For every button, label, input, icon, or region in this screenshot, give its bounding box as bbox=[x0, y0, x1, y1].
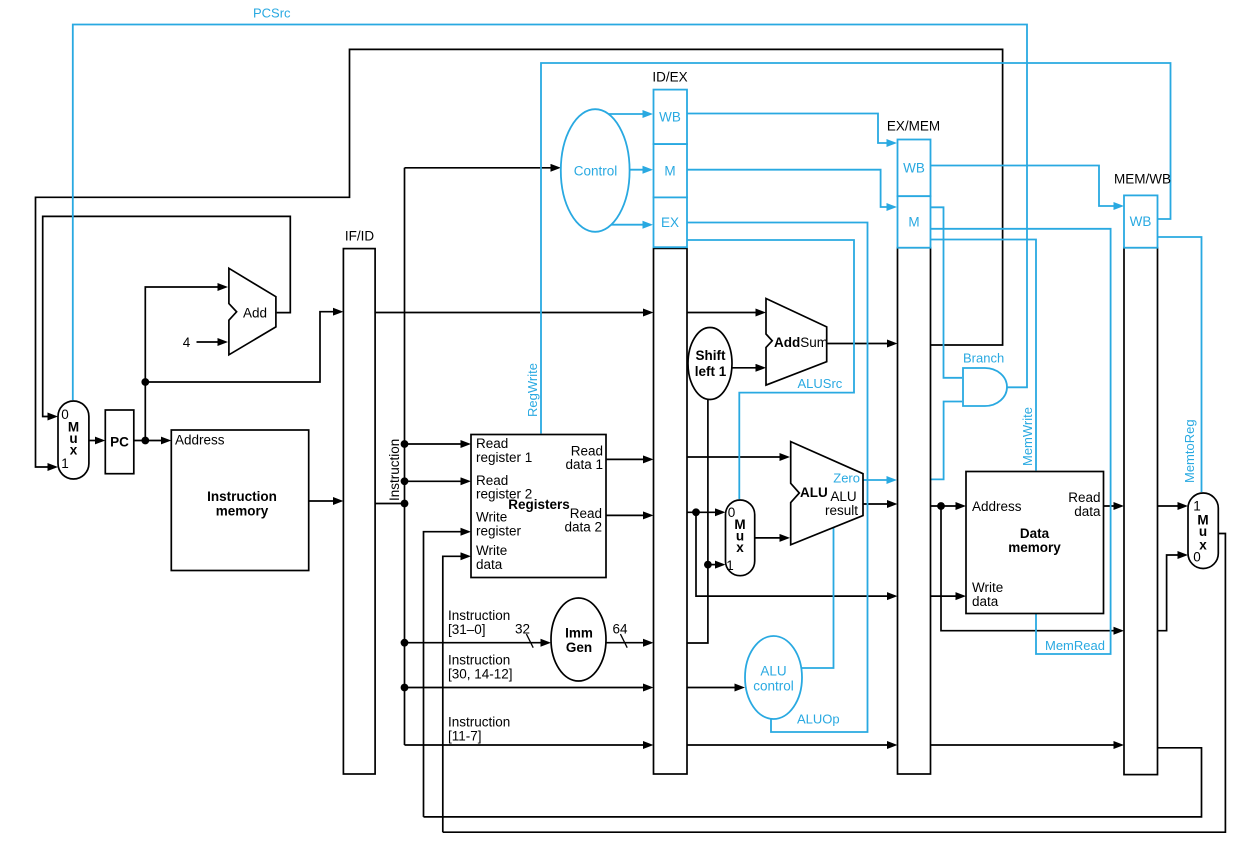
wire store data to EX/MEM bbox=[696, 512, 895, 596]
svg-text:PCSrc: PCSrc bbox=[253, 6, 291, 21]
wire EX/MEM ALU result to data memory Address bbox=[931, 505, 964, 507]
junction instruction 30,14-12 bbox=[401, 684, 409, 692]
svg-text:WB: WB bbox=[1130, 214, 1152, 229]
svg-text:Instruction: Instruction bbox=[448, 653, 510, 668]
pipeline register IF/ID bbox=[343, 249, 375, 774]
wire MEM/WB read data to write mux input 1 bbox=[1158, 505, 1186, 507]
wire ID/EX read data 2 to ALU mux input 0 bbox=[687, 511, 723, 513]
svg-text:32: 32 bbox=[515, 622, 530, 637]
wire ID/EX read data 1 to ALU bbox=[687, 456, 788, 458]
svg-text:Instruction: Instruction bbox=[387, 439, 402, 501]
wire PCSrc from branch AND gate to PC mux select bbox=[73, 25, 1027, 401]
svg-text:EX: EX bbox=[661, 215, 679, 230]
junction immediate split bbox=[704, 561, 712, 569]
svg-text:Gen: Gen bbox=[566, 640, 592, 655]
wire write register number ID/EX to EX/MEM bbox=[687, 744, 895, 746]
wire PC mux output to PC bbox=[89, 440, 103, 442]
wire PC value to IF/ID bbox=[145, 312, 341, 382]
svg-text:1: 1 bbox=[726, 558, 734, 573]
svg-text:WB: WB bbox=[659, 110, 681, 125]
wire IF/ID instruction output bbox=[375, 503, 404, 505]
junction PC to IF/ID branch bbox=[141, 378, 149, 386]
svg-text:[11-7]: [11-7] bbox=[448, 729, 482, 744]
svg-text:ID/EX: ID/EX bbox=[652, 70, 687, 85]
svg-text:x: x bbox=[70, 443, 78, 458]
junction read data 2 split bbox=[692, 508, 700, 516]
MEM/WB WB box bbox=[1124, 195, 1158, 247]
svg-text:data: data bbox=[476, 557, 503, 572]
wire ALU control output to ALU bbox=[801, 526, 834, 669]
wire ALU result to EX/MEM bbox=[863, 503, 895, 505]
wire ALU result around data memory to MEM/WB bbox=[941, 506, 1122, 631]
ID/EX WB box bbox=[654, 90, 688, 145]
ID/EX EX box bbox=[654, 197, 688, 247]
svg-text:Registers: Registers bbox=[508, 497, 570, 512]
slash 32-bit width mark bbox=[526, 634, 533, 648]
svg-text:data 1: data 1 bbox=[565, 457, 603, 472]
svg-text:Imm: Imm bbox=[565, 626, 593, 641]
svg-text:result: result bbox=[825, 503, 858, 518]
svg-text:1: 1 bbox=[1193, 499, 1201, 514]
svg-text:[31–0]: [31–0] bbox=[448, 622, 486, 637]
wire instruction to Control bbox=[405, 167, 559, 169]
wire Zero flag ALU to EX/MEM bbox=[863, 479, 895, 481]
wire write data feedback into Registers bbox=[443, 556, 469, 832]
wire write mux output feedback bottom bbox=[443, 534, 1226, 833]
svg-text:data: data bbox=[972, 594, 999, 609]
wire IF/ID PC to ID/EX bbox=[375, 312, 651, 314]
junction PC output bbox=[141, 437, 149, 445]
svg-text:Control: Control bbox=[574, 164, 618, 179]
svg-text:ALU: ALU bbox=[800, 485, 828, 500]
svg-text:[30, 14-12]: [30, 14-12] bbox=[448, 667, 513, 682]
wire immediate to ALU mux input 1 bbox=[708, 564, 723, 566]
svg-text:EX/MEM: EX/MEM bbox=[887, 119, 940, 134]
wire MEM/WB ALU result to write mux input 0 bbox=[1158, 555, 1186, 631]
wire Read data 2 to ID/EX bbox=[606, 514, 651, 516]
svg-text:Instruction: Instruction bbox=[207, 489, 277, 504]
AND gate Branch bbox=[963, 368, 1007, 406]
junction ALU result split bbox=[937, 502, 945, 510]
oval Imm Gen bbox=[551, 598, 606, 681]
wire Control to ID/EX EX bbox=[611, 224, 650, 226]
wire data memory Read data to MEM/WB bbox=[1104, 505, 1122, 507]
adder Add Sum (branch target) bbox=[766, 299, 827, 386]
svg-text:Address: Address bbox=[175, 433, 225, 448]
svg-text:Read: Read bbox=[476, 436, 508, 451]
svg-text:WB: WB bbox=[903, 161, 925, 176]
wire ALU mux output to ALU bbox=[755, 537, 788, 539]
svg-text:Address: Address bbox=[972, 499, 1022, 514]
ID/EX M box bbox=[654, 144, 688, 197]
pipeline register MEM/WB bbox=[1124, 248, 1158, 775]
svg-text:left 1: left 1 bbox=[695, 364, 727, 379]
wire ID/EX PC to Add Sum bbox=[687, 312, 764, 314]
wire ALUOp from ID/EX EX to ALU control bbox=[687, 223, 868, 733]
wire instruction [31-0] to Imm Gen bbox=[405, 642, 549, 644]
wire instruction memory to IF/ID bbox=[309, 500, 341, 502]
junction instruction read register 1 bbox=[401, 440, 409, 448]
oval ALU control bbox=[745, 636, 802, 719]
svg-text:4: 4 bbox=[183, 335, 191, 350]
svg-text:memory: memory bbox=[1008, 540, 1061, 555]
svg-text:ALUOp: ALUOp bbox=[797, 712, 840, 727]
wire ID/EX immediate up to Shift left 1 bbox=[687, 400, 708, 644]
svg-text:MemRead: MemRead bbox=[1045, 638, 1105, 653]
svg-text:Instruction: Instruction bbox=[448, 715, 510, 730]
wire ID/EX funct to ALU control bbox=[687, 687, 743, 689]
wire write register number feedback bottom bbox=[424, 748, 1202, 817]
wire instruction [11-7] to ID/EX bbox=[405, 744, 652, 746]
wire Branch from EX/MEM M to AND gate bbox=[931, 207, 963, 377]
svg-text:control: control bbox=[753, 679, 794, 694]
junction instruction read register 2 bbox=[401, 477, 409, 485]
wire branch target feedback from EX/MEM to PC mux input 1 bbox=[36, 49, 1003, 467]
wire Shift left 1 to Add Sum bbox=[732, 367, 764, 369]
wire PC up to Add input bbox=[145, 287, 225, 441]
svg-text:ALUSrc: ALUSrc bbox=[798, 376, 843, 391]
wire MemtoReg from MEM/WB to write mux select bbox=[1158, 237, 1202, 492]
mux M1 before PC bbox=[58, 401, 89, 479]
svg-text:MEM/WB: MEM/WB bbox=[1114, 172, 1171, 187]
wire instruction vertical bus bbox=[404, 168, 406, 745]
svg-text:MemtoReg: MemtoReg bbox=[1182, 419, 1197, 483]
wire instruction to Read register 2 bbox=[405, 480, 469, 482]
wire MemRead from EX/MEM M to data memory bbox=[931, 229, 1111, 654]
mux M3 write-back bbox=[1188, 493, 1218, 569]
wire instruction to Read register 1 bbox=[405, 443, 469, 445]
wire write register number EX/MEM to MEM/WB bbox=[931, 744, 1122, 746]
svg-text:Branch: Branch bbox=[963, 351, 1004, 366]
svg-text:Add: Add bbox=[243, 306, 267, 321]
wire Zero from EX/MEM to AND gate bbox=[931, 402, 963, 480]
wire constant 4 to Add bbox=[197, 341, 226, 343]
svg-text:register 1: register 1 bbox=[476, 450, 532, 465]
svg-text:M: M bbox=[664, 164, 675, 179]
ALU bbox=[791, 442, 863, 545]
pipeline register EX/MEM bbox=[898, 248, 931, 774]
svg-text:MemWrite: MemWrite bbox=[1020, 407, 1035, 466]
data memory bbox=[966, 472, 1104, 614]
svg-text:Write: Write bbox=[476, 543, 507, 558]
svg-text:x: x bbox=[736, 540, 744, 555]
junction instruction entry bbox=[401, 500, 409, 508]
svg-text:PC: PC bbox=[110, 435, 129, 450]
instruction memory bbox=[171, 430, 308, 571]
wire instruction [30,14-12] to ID/EX bbox=[405, 687, 652, 689]
svg-text:ALU: ALU bbox=[760, 664, 786, 679]
wire Imm Gen output to ID/EX bbox=[606, 642, 651, 644]
wire write register number feedback into Registers bbox=[424, 532, 469, 817]
svg-text:Write: Write bbox=[972, 580, 1003, 595]
svg-text:0: 0 bbox=[1193, 550, 1201, 565]
svg-text:Shift: Shift bbox=[696, 348, 726, 363]
wire M chain ID/EX to EX/MEM bbox=[687, 170, 895, 207]
svg-text:Write: Write bbox=[476, 510, 507, 525]
registers block bbox=[471, 435, 606, 578]
EX/MEM M box bbox=[898, 196, 931, 248]
wire Control to ID/EX WB bbox=[609, 113, 651, 115]
wire Add Sum result to EX/MEM bbox=[827, 343, 895, 345]
svg-text:data: data bbox=[1074, 504, 1101, 519]
svg-text:Zero: Zero bbox=[833, 471, 860, 486]
wire Control to ID/EX M bbox=[630, 169, 651, 171]
svg-text:AddSum: AddSum bbox=[774, 335, 828, 350]
wire WB chain EX/MEM to MEM/WB bbox=[931, 166, 1122, 207]
EX/MEM WB box bbox=[898, 140, 931, 197]
slash 64-bit width mark bbox=[620, 634, 627, 648]
wire PC+4 feedback to PC mux input 0 bbox=[43, 216, 291, 416]
svg-text:memory: memory bbox=[216, 504, 269, 519]
svg-text:register: register bbox=[476, 524, 522, 539]
junction instruction 31-0 bbox=[401, 639, 409, 647]
svg-text:Instruction: Instruction bbox=[448, 608, 510, 623]
wire EX/MEM store data to data memory Write data bbox=[931, 595, 964, 597]
wire PC to instruction memory Address bbox=[134, 440, 169, 442]
oval Control bbox=[561, 109, 630, 232]
svg-text:IF/ID: IF/ID bbox=[345, 229, 374, 244]
wire RegWrite from MEM/WB to Registers bbox=[541, 63, 1171, 434]
mux M2 before ALU bbox=[726, 500, 755, 576]
svg-text:Read: Read bbox=[1068, 490, 1100, 505]
svg-text:1: 1 bbox=[61, 456, 69, 471]
adder Add (PC+4) bbox=[229, 268, 276, 355]
svg-text:RegWrite: RegWrite bbox=[525, 363, 540, 417]
wire MemWrite from EX/MEM M to data memory bbox=[931, 240, 1037, 471]
svg-text:ALU: ALU bbox=[830, 489, 856, 504]
svg-text:M: M bbox=[908, 215, 919, 230]
oval Shift left 1 bbox=[688, 328, 732, 400]
wire ALUSrc from ID/EX EX to ALU mux select bbox=[687, 240, 854, 499]
wire Read data 1 to ID/EX bbox=[606, 458, 651, 460]
svg-text:data 2: data 2 bbox=[564, 520, 602, 535]
svg-text:Data: Data bbox=[1020, 526, 1050, 541]
pipeline register ID/EX bbox=[654, 248, 688, 774]
wire WB chain ID/EX to EX/MEM bbox=[687, 114, 895, 144]
register PC bbox=[105, 410, 134, 474]
